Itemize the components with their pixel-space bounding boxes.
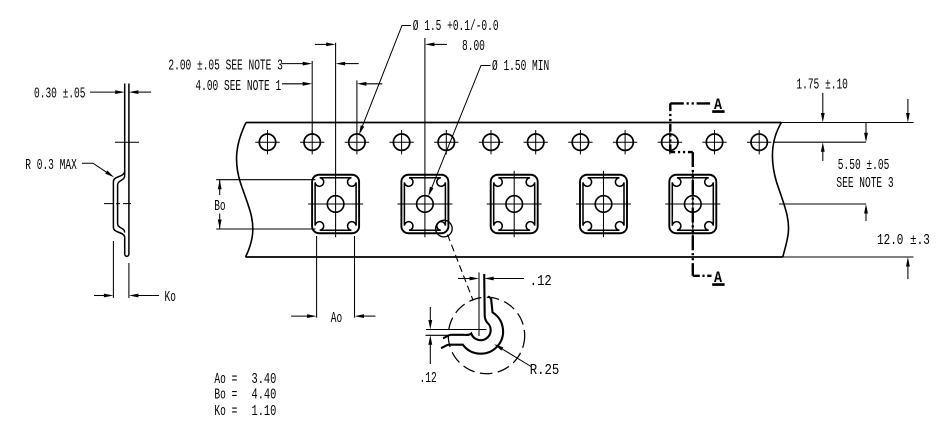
tape top edge — [246, 122, 781, 124]
svg-text:12.0 ±.3: 12.0 ±.3 — [877, 232, 930, 249]
tape bottom edge — [246, 256, 783, 258]
svg-text:R 0.3 MAX: R 0.3 MAX — [25, 157, 77, 174]
svg-text:3.40: 3.40 — [252, 371, 277, 388]
svg-text:0.30 ±.05: 0.30 ±.05 — [34, 86, 86, 103]
side view: pocket bump inner surface — [117, 185, 119, 224]
dimension 5.50 bottom arrow — [865, 213, 867, 221]
sprocket hole 3 — [349, 134, 365, 150]
component pocket 2 with centre hole — [397, 38, 452, 237]
component pocket 5 with centre hole — [665, 171, 720, 238]
side view: pocket centre level tick line — [104, 203, 131, 205]
sprocket hole 1 — [259, 134, 275, 150]
sprocket hole 7 — [528, 134, 544, 150]
svg-text:Bo: Bo — [214, 198, 225, 215]
svg-text:4.00 SEE NOTE 1: 4.00 SEE NOTE 1 — [195, 78, 281, 95]
side view: pocket bump outer surface — [112, 182, 114, 228]
dimension 0.30 left arrow — [90, 91, 116, 93]
dimension 8.00 right arrow — [434, 43, 447, 45]
detail view boundary dashed circle — [448, 297, 524, 373]
tape bottom edge extension line — [783, 256, 914, 258]
Ko extension line (tape back surface) — [128, 263, 130, 298]
dimension 1.75 top arrow — [822, 93, 824, 114]
svg-text:Bo =: Bo = — [214, 387, 237, 404]
detail dimension .12 vertical top arrow — [429, 307, 431, 321]
Ko extension line (bump surface) — [112, 241, 114, 298]
section cutting line A-A upper vertical — [669, 103, 671, 152]
sprocket hole 6 — [483, 134, 499, 150]
dimension Ao left arrow — [291, 315, 308, 317]
section cutting line A-A jog — [670, 151, 693, 153]
side view: pocket bump outer S-bend bottom — [113, 228, 124, 238]
Ao extension line left — [316, 236, 318, 318]
svg-text:Ø 1.5 +0.1/-0.0: Ø 1.5 +0.1/-0.0 — [413, 18, 499, 35]
leader for R 0.3 MAX — [82, 163, 112, 175]
svg-text:4.40: 4.40 — [252, 387, 277, 404]
dimension Ko right arrow — [138, 295, 159, 297]
svg-text:2.00 ±.05 SEE NOTE 3: 2.00 ±.05 SEE NOTE 3 — [168, 57, 282, 74]
leader for diameter 1.50 MIN — [429, 66, 490, 194]
side view: pocket bump inner S-bend top — [118, 176, 125, 186]
extension line at sprocket hole 3 centre — [356, 80, 358, 134]
section cutting line A-A lower vertical — [692, 152, 694, 276]
section cutting line A-A top arm — [670, 102, 711, 104]
sprocket hole 12 — [751, 134, 767, 150]
Bo extension line bottom — [216, 228, 315, 230]
dimension Ao right arrow — [364, 315, 376, 317]
leader for R.25 — [496, 345, 531, 366]
leader for diameter 1.5 callout — [360, 26, 411, 133]
svg-text:R.25: R.25 — [530, 362, 560, 379]
component pocket 3 with centre hole — [487, 171, 542, 238]
detail dimension .12 horizontal right arrow — [493, 278, 524, 280]
sprocket hole centre extension line — [774, 141, 866, 143]
dimension 12.0 bottom arrow — [907, 266, 909, 279]
side view: sprocket-hole level tick line — [115, 141, 139, 143]
sprocket hole 11 — [706, 134, 722, 150]
svg-text:.12: .12 — [530, 273, 552, 290]
svg-text:Ao: Ao — [331, 310, 342, 327]
component pocket 1 with centre hole — [308, 43, 363, 238]
svg-text:1.10: 1.10 — [252, 403, 277, 420]
detail dimension .12 vertical bottom arrow — [429, 344, 431, 364]
svg-text:Ø 1.50 MIN: Ø 1.50 MIN — [492, 58, 549, 75]
detail dimension .12 horizontal left arrow — [458, 278, 470, 280]
dimension 5.50 top arrow — [865, 123, 867, 134]
dimension 8.00 left arrow — [315, 43, 327, 45]
sprocket hole 8 — [572, 134, 588, 150]
Bo extension line top — [216, 179, 315, 181]
dimension 12.0 top arrow — [907, 99, 909, 114]
dimension Ko left arrow — [94, 295, 104, 297]
svg-text:5.50 ±.05: 5.50 ±.05 — [838, 157, 890, 174]
dimension 2.00 right arrow — [345, 63, 359, 65]
sprocket hole 9 — [617, 134, 633, 150]
pocket centre extension line — [779, 203, 866, 205]
svg-text:8.00: 8.00 — [462, 38, 485, 55]
svg-text:SEE NOTE 3: SEE NOTE 3 — [836, 175, 893, 192]
side view: tape front surface upper segment (also 0.30 extension line) — [124, 84, 126, 176]
dimension 4.00 left arrow — [282, 83, 303, 85]
svg-text:1.75 ±.10: 1.75 ±.10 — [796, 77, 848, 94]
side view: pocket bump inner S-bend bottom — [118, 224, 125, 233]
sprocket hole 5 — [438, 134, 454, 150]
detail callout circle on pocket 2 corner — [436, 220, 453, 237]
side view: pocket bump outer S-bend top (R 0.3 corner) — [113, 171, 124, 181]
sprocket hole 2 — [304, 134, 320, 150]
dimension 2.00 left arrow — [282, 63, 303, 65]
extension line at sprocket hole 2 centre — [311, 61, 313, 134]
svg-text:Ko =: Ko = — [214, 403, 237, 420]
dimension 4.00 right arrow — [366, 83, 382, 85]
sprocket hole 10 — [662, 134, 678, 150]
detail radius centre line horizontal — [426, 329, 487, 331]
detail inner wall with corner radius — [443, 274, 491, 340]
svg-text:Ao =: Ao = — [214, 371, 237, 388]
tape left break line — [237, 123, 253, 258]
tape top edge extension line — [781, 122, 913, 124]
dimension Bo line with arrows — [219, 180, 221, 195]
detail outer wall with corner radius R.25 — [441, 297, 503, 354]
sprocket hole 4 — [393, 134, 409, 150]
dashed leader to detail view — [448, 235, 474, 301]
svg-text:.12: .12 — [420, 370, 437, 387]
dimension 1.75 bottom arrow — [822, 151, 824, 161]
Ao extension line right — [354, 236, 356, 318]
section cutting line A-A bottom arm — [693, 275, 712, 277]
dimension 0.30 right arrow — [138, 91, 151, 93]
detail radius centre line vertical — [478, 273, 480, 337]
detail surface extension line — [426, 334, 450, 336]
svg-text:Ko: Ko — [165, 289, 176, 306]
side view: tape back surface line with bottom cap — [125, 84, 129, 257]
component pocket 4 with centre hole — [576, 171, 631, 238]
tape right break line — [772, 123, 788, 258]
